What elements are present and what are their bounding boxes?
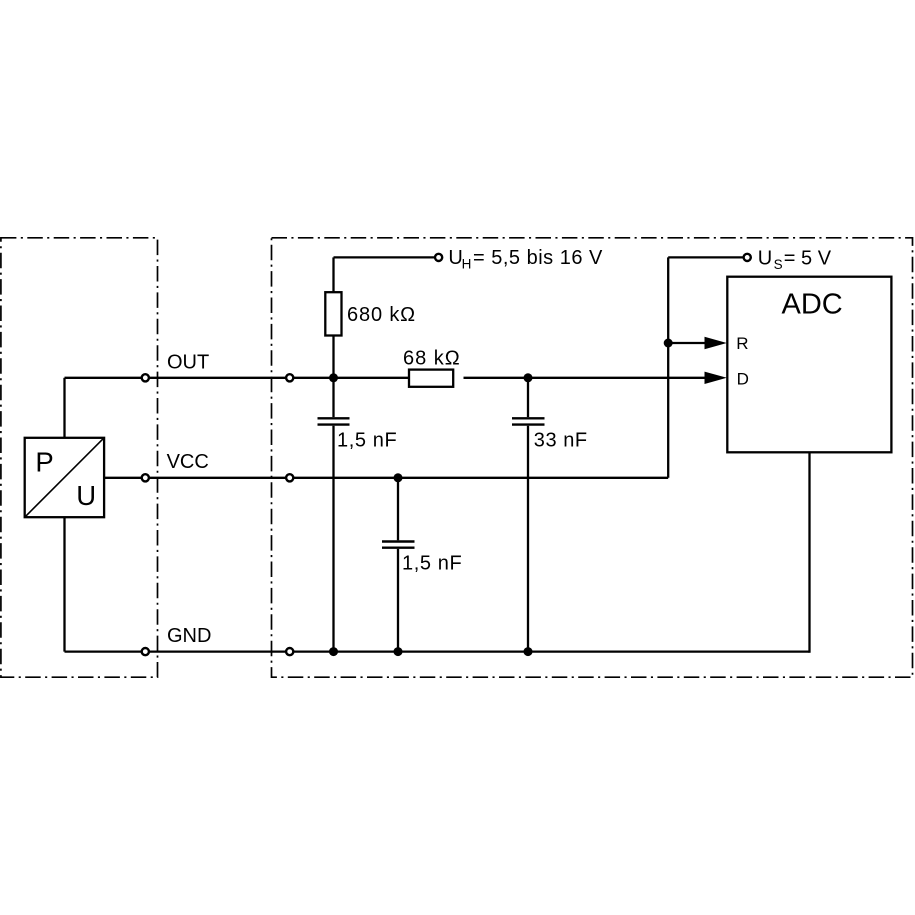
svg-text:GND: GND [167, 625, 211, 647]
svg-text:= 5,5 bis 16 V: = 5,5 bis 16 V [473, 247, 603, 269]
svg-text:U: U [76, 480, 96, 511]
wire: US supply feed [668, 256, 747, 258]
terminal: VCC at sensor boundary [142, 474, 149, 481]
terminal: OUT at circuit boundary [286, 374, 293, 381]
wire: capacitor C1 bottom lead [332, 426, 334, 652]
wire: sensor OUT lead [63, 378, 65, 438]
wire: ADC ground return [808, 452, 810, 652]
terminal: OUT at sensor boundary [142, 374, 149, 381]
svg-text:= 5 V: = 5 V [784, 247, 832, 269]
wire: capacitor C1 top lead [332, 378, 334, 417]
wire: resistor 680k bottom lead [332, 336, 334, 378]
net label US = 5 V [758, 247, 832, 272]
svg-text:P: P [35, 447, 53, 478]
svg-text:U: U [758, 247, 772, 269]
junction node: GND / C2 [524, 647, 533, 656]
svg-text:68 kΩ: 68 kΩ [403, 347, 461, 369]
resistor 68 kOhm body [409, 370, 453, 387]
svg-text:33 nF: 33 nF [534, 429, 588, 451]
terminal: UH supply [435, 254, 442, 261]
wire: sensor GND lead [63, 517, 65, 651]
svg-text:1,5 nF: 1,5 nF [337, 429, 397, 451]
wire: OUT net left segment [65, 377, 410, 379]
junction node: GND / C3 [394, 647, 403, 656]
svg-text:680 kΩ: 680 kΩ [347, 304, 416, 326]
svg-text:1,5 nF: 1,5 nF [402, 553, 462, 575]
capacitor C3 1,5 nF plates [382, 542, 415, 548]
junction node: OUT / 680k / C1 [329, 373, 338, 382]
ADC box U1 [727, 277, 891, 453]
svg-text:H: H [462, 257, 472, 272]
terminal: GND at sensor boundary [142, 648, 149, 655]
capacitor C2 33 nF plates [512, 418, 545, 424]
terminal: GND at circuit boundary [286, 648, 293, 655]
resistor 680 kOhm body [325, 292, 341, 335]
terminal: US supply [744, 254, 751, 261]
wire: R arrow line [668, 342, 710, 344]
svg-text:ADC: ADC [782, 288, 843, 320]
wire: capacitor C2 bottom lead [527, 426, 529, 652]
wire: OUT net right segment to ADC D input [464, 377, 711, 379]
svg-text:OUT: OUT [167, 351, 209, 373]
wire: capacitor C3 top lead [397, 478, 399, 541]
arrowhead R [705, 337, 727, 349]
junction node: GND / C1 [329, 647, 338, 656]
wire: capacitor C2 top lead [527, 378, 529, 417]
junction node: VCC / C3 [394, 473, 403, 482]
junction node: OUT / C2 [524, 373, 533, 382]
wire: VCC riser to R reference [667, 257, 669, 477]
svg-text:R: R [736, 334, 748, 353]
net label UH = 5,5 bis 16 V [448, 247, 603, 272]
wire: resistor 680k top lead [332, 257, 334, 292]
circuit enclosure dashed box [272, 238, 913, 677]
terminal: VCC at circuit boundary [286, 474, 293, 481]
sensor enclosure dashed box [1, 238, 158, 677]
capacitor C1 1,5 nF plates [318, 418, 350, 424]
svg-text:D: D [737, 370, 749, 389]
sensor P/U box [25, 438, 104, 517]
wire: GND net [65, 650, 810, 652]
wire: capacitor C3 bottom lead [397, 549, 399, 652]
svg-text:VCC: VCC [167, 451, 209, 473]
svg-text:S: S [774, 257, 783, 272]
junction node: R branch on VCC riser [664, 339, 673, 348]
wire: UH supply feed [334, 256, 439, 258]
wire: VCC net [104, 477, 668, 479]
arrowhead D [705, 372, 727, 384]
